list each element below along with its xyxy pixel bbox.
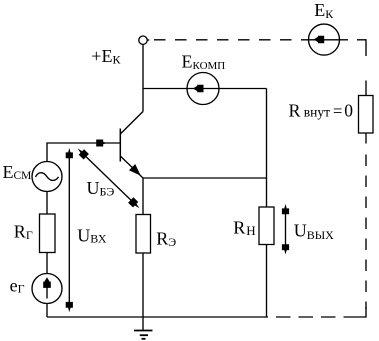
svg-text:RН: RН bbox=[233, 217, 255, 238]
wire: emitter to Re bbox=[142, 178, 144, 215]
wire: base wire from left branch corner to transistor base bbox=[47, 143, 120, 162]
svg-text:RЭ: RЭ bbox=[156, 229, 176, 249]
resistor Rn bbox=[259, 207, 274, 245]
svg-text:RГ: RГ bbox=[14, 222, 33, 242]
svg-text:UБЭ: UБЭ bbox=[87, 178, 115, 198]
source eg (circle with up arrow) bbox=[32, 274, 62, 304]
wire: dash nub at terminal bbox=[148, 39, 150, 41]
wire: Rn to bottom rail bbox=[266, 245, 268, 318]
label R vnut = 0 bbox=[289, 101, 354, 121]
wire: collector vertical to top terminal bbox=[142, 44, 144, 112]
dashed wire: right side vertical bbox=[365, 155, 367, 310]
source Ekomp (circle with left arrow) bbox=[187, 73, 219, 105]
dashed wire: Ek to top-right corner bbox=[340, 40, 367, 56]
wire: Re to bottom rail bbox=[142, 253, 144, 317]
svg-text:+ЕК: +ЕК bbox=[91, 46, 121, 66]
svg-text:=: = bbox=[333, 102, 342, 121]
svg-text:R: R bbox=[289, 101, 301, 121]
resistor Re bbox=[136, 215, 151, 254]
wire: Esm to Rg bbox=[46, 192, 48, 215]
wire: eg to bottom rail bbox=[46, 304, 48, 318]
svg-text:UВЫХ: UВЫХ bbox=[294, 221, 334, 242]
svg-text:UВХ: UВХ bbox=[77, 225, 107, 245]
wire: emitter horizontal bbox=[143, 177, 267, 179]
source Ek (circle with left arrow) bbox=[309, 24, 340, 55]
wire: stub above Rvnut bbox=[365, 81, 367, 96]
svg-text:внут: внут bbox=[304, 105, 330, 120]
resistor Rvnut bbox=[359, 96, 374, 134]
arrow Uvx (double-headed vertical) bbox=[66, 148, 73, 312]
dashed wire: top rail from terminal to Ek bbox=[154, 39, 309, 41]
wire: bottom rail bbox=[47, 316, 268, 318]
arrow Ube (double-headed diagonal) bbox=[78, 148, 140, 208]
svg-text:еГ: еГ bbox=[10, 275, 25, 295]
wire: Rg to eg bbox=[46, 253, 48, 274]
wire: stub below Rvnut bbox=[365, 133, 367, 144]
transistor VT1 bbox=[120, 112, 143, 179]
arrow Uvyx (double-headed vertical) bbox=[282, 204, 289, 255]
svg-text:0: 0 bbox=[344, 101, 353, 121]
resistor Rg bbox=[40, 214, 56, 253]
ground bbox=[134, 317, 153, 339]
source Esm (AC source with sine) bbox=[32, 162, 62, 192]
wire: right branch vertical from Ekomp wire down to Rn bbox=[266, 89, 268, 208]
svg-text:ЕК: ЕК bbox=[314, 0, 334, 21]
dashed wire: bottom return bbox=[272, 316, 358, 318]
svg-text:ЕКОМП: ЕКОМП bbox=[182, 51, 226, 72]
node: +Ek terminal (open circle) bbox=[139, 36, 147, 44]
dashed wire: bottom-right corner bbox=[358, 307, 366, 317]
arrow: input current arrow on base wire bbox=[96, 140, 107, 147]
wire: Ekomp branch horizontal bbox=[143, 88, 267, 90]
svg-text:ЕСМ: ЕСМ bbox=[3, 162, 32, 182]
